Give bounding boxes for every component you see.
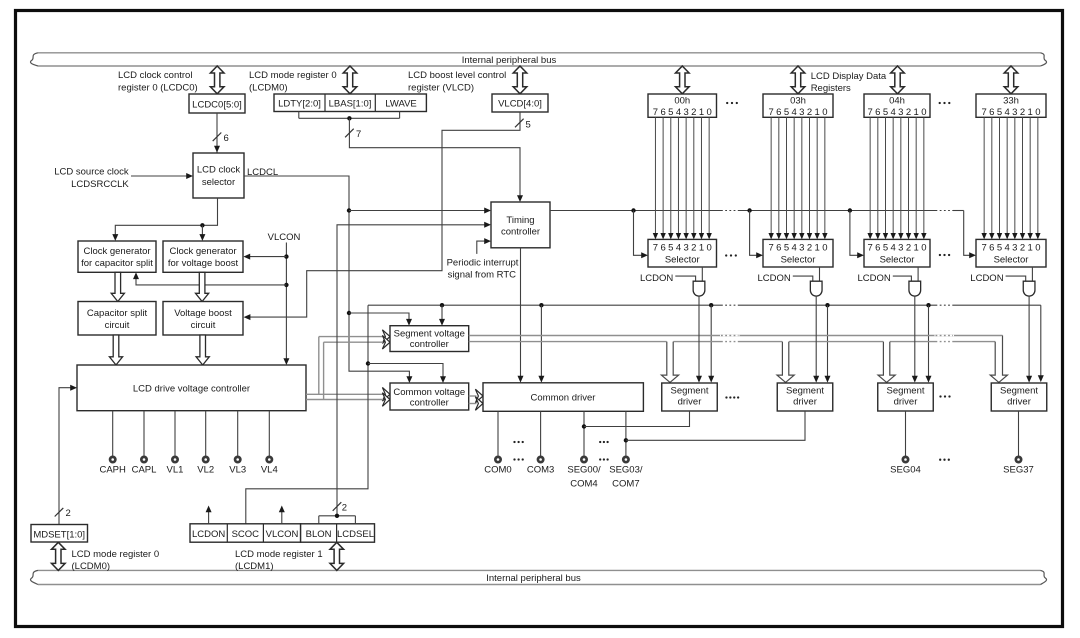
svg-text:SEG37: SEG37 (1003, 465, 1034, 476)
svg-text:VLCD[4:0]: VLCD[4:0] (498, 99, 542, 110)
ellipsis SEG04-SEG37 (939, 459, 941, 461)
ellipsis COM0-COM3 (513, 441, 515, 443)
svg-text:LCDSEL: LCDSEL (337, 529, 374, 540)
svg-text:Selector: Selector (665, 255, 700, 266)
segment driver 04h (878, 383, 934, 411)
svg-text:Clock generator: Clock generator (83, 246, 150, 257)
pin COM3 (540, 411, 542, 456)
block timing controller (491, 202, 550, 248)
svg-text:1: 1 (699, 107, 704, 118)
pin COM0 (497, 411, 499, 456)
svg-text:6: 6 (875, 107, 880, 118)
svg-text:Selector: Selector (781, 255, 816, 266)
segment driver 33h (991, 383, 1047, 411)
wire SCOC distribution (246, 305, 368, 524)
register LCDC0[5:0] (189, 94, 245, 113)
pin VL1 (174, 411, 176, 457)
block common driver (483, 383, 643, 412)
pin SEG03/COM7 (625, 411, 627, 456)
svg-text:LCD clock control: LCD clock control (118, 70, 192, 81)
svg-text:circuit: circuit (191, 320, 216, 331)
block clock generator for capacitor split (78, 241, 156, 272)
selector 33h (976, 239, 1046, 267)
bus double arrow LCDM0 (343, 66, 357, 94)
svg-text:1: 1 (699, 243, 704, 254)
svg-text:5: 5 (883, 107, 888, 118)
svg-text:SEG03/: SEG03/ (609, 465, 643, 476)
svg-text:COM4: COM4 (570, 479, 597, 490)
bus double arrow reg 04h (891, 66, 905, 94)
ellipsis segment drivers zone B (939, 395, 941, 397)
svg-text:4: 4 (792, 107, 797, 118)
svg-text:LCDON: LCDON (758, 273, 791, 284)
svg-text:3: 3 (898, 107, 903, 118)
wire RTC interrupt to timing controller (477, 241, 485, 254)
svg-text:LCDSRCCLK: LCDSRCCLK (71, 179, 129, 190)
svg-text:(LCDM0): (LCDM0) (72, 561, 111, 572)
svg-text:3: 3 (683, 107, 688, 118)
wire LCDCL to timing controller (244, 176, 409, 377)
svg-text:1: 1 (815, 107, 820, 118)
stub arrow LCDON up (208, 512, 210, 524)
svg-text:6: 6 (660, 107, 665, 118)
wire clock selector to clock generators (115, 198, 217, 235)
svg-text:0: 0 (706, 107, 711, 118)
svg-text:Common voltage: Common voltage (393, 387, 465, 398)
wire common voltage to common driver (pair) (469, 395, 477, 397)
ellipsis registers zone B (939, 102, 941, 104)
svg-text:signal from RTC: signal from RTC (448, 270, 517, 281)
svg-text:6: 6 (989, 243, 994, 254)
register MDSET[1:0] (31, 525, 88, 543)
svg-text:circuit: circuit (105, 320, 130, 331)
wire LCDON to gate 04h (893, 276, 912, 281)
svg-text:2: 2 (1020, 243, 1025, 254)
svg-text:Internal peripheral bus: Internal peripheral bus (486, 573, 581, 584)
svg-text:7: 7 (868, 107, 873, 118)
svg-text:LCD mode register 0: LCD mode register 0 (72, 549, 160, 560)
bus double arrow MDSET/LCDM0 (52, 542, 66, 570)
wire timing controller to common driver (520, 248, 522, 377)
wire drive voltage to segment voltage controller (pair) (306, 393, 383, 395)
svg-text:LBAS[1:0]: LBAS[1:0] (329, 99, 372, 110)
ellipsis segment drivers zone A (725, 396, 727, 398)
svg-text:6: 6 (224, 133, 229, 144)
wire LCDON to gate 33h (1006, 276, 1026, 281)
gate AND 00h (693, 281, 705, 296)
wire branch to voltage boost clock generator (201, 225, 203, 234)
svg-text:7: 7 (982, 243, 987, 254)
svg-text:2: 2 (807, 107, 812, 118)
hollow arrow bus to segment driver (661, 342, 678, 383)
wire LCDSRCCLK to clock selector (131, 175, 187, 177)
node SEG00/COM4 junction (582, 424, 586, 428)
ellipsis registers zone A (726, 102, 728, 104)
wire VLCD[4:0] to voltage boost circuit (250, 112, 520, 317)
svg-text:6: 6 (776, 243, 781, 254)
wire gate 04h to segment driver (914, 296, 916, 376)
svg-text:5: 5 (997, 243, 1002, 254)
svg-text:2: 2 (906, 107, 911, 118)
segment driver 00h (662, 383, 718, 411)
svg-text:2: 2 (906, 243, 911, 254)
block LCD clock selector (193, 153, 244, 198)
svg-text:LCDON: LCDON (858, 273, 891, 284)
wires register 33h to selector (983, 117, 985, 233)
svg-text:Periodic interrupt: Periodic interrupt (447, 258, 519, 269)
svg-text:LCD boost level control: LCD boost level control (408, 70, 506, 81)
hollow arrow voltage boost to drive controller (196, 335, 209, 365)
wire selector output to gate 03h (819, 267, 821, 281)
hollow arrow voltage boost clock (196, 272, 209, 301)
svg-text:6: 6 (776, 107, 781, 118)
svg-text:33h: 33h (1003, 95, 1019, 106)
svg-text:2: 2 (691, 107, 696, 118)
hollow arrow bus to segment driver (777, 342, 794, 383)
gate AND 03h (810, 281, 822, 296)
svg-text:Timing: Timing (506, 215, 534, 226)
svg-text:LDTY[2:0]: LDTY[2:0] (278, 99, 321, 110)
svg-text:LCD Display Data: LCD Display Data (811, 71, 887, 82)
svg-text:1: 1 (914, 107, 919, 118)
slash 2 MDSET (55, 508, 64, 517)
svg-text:VL4: VL4 (261, 465, 278, 476)
svg-text:driver: driver (894, 397, 918, 408)
svg-text:register 0 (LCDC0): register 0 (LCDC0) (118, 83, 198, 94)
register LDTY[2:0]/LBAS[1:0]/LWAVE (274, 94, 426, 112)
svg-text:2: 2 (342, 503, 347, 514)
svg-text:driver: driver (1007, 397, 1031, 408)
pin VL2 (205, 411, 207, 457)
wires register 04h to selector (869, 117, 871, 233)
node BLON bracket junction (335, 514, 339, 518)
svg-text:7: 7 (769, 107, 774, 118)
svg-text:LCDON: LCDON (970, 273, 1003, 284)
svg-text:0: 0 (706, 243, 711, 254)
node SCOC to segment driver junction (709, 303, 713, 307)
selector 03h (763, 239, 833, 267)
svg-text:Segment: Segment (886, 386, 924, 397)
wire LCDON to gate 03h (793, 276, 813, 281)
top internal peripheral bus bar (38, 52, 1041, 54)
svg-text:2: 2 (691, 243, 696, 254)
svg-text:Internal peripheral bus: Internal peripheral bus (462, 55, 557, 66)
wire MDSET[1:0] to drive voltage controller (59, 388, 71, 525)
slash 5 (515, 119, 524, 128)
node LDTY bracket junction (347, 116, 351, 120)
pin SEG04 (905, 411, 907, 456)
svg-text:MDSET[1:0]: MDSET[1:0] (33, 529, 85, 540)
register 00h display data (648, 94, 717, 117)
svg-text:03h: 03h (790, 95, 806, 106)
svg-text:Voltage boost: Voltage boost (174, 308, 232, 319)
wire VLCON down to LCD drive voltage controller (285, 243, 287, 359)
svg-text:COM0: COM0 (484, 465, 511, 476)
svg-text:3: 3 (683, 243, 688, 254)
svg-text:selector: selector (202, 177, 235, 188)
svg-text:0: 0 (822, 243, 827, 254)
wire selector output to gate 33h (1031, 267, 1033, 281)
svg-text:5: 5 (526, 120, 531, 131)
svg-text:Segment voltage: Segment voltage (394, 329, 465, 340)
svg-text:7: 7 (356, 129, 361, 140)
hollow arrow bus to segment driver (878, 342, 895, 383)
pin VL3 (237, 411, 239, 457)
svg-text:LCD drive voltage controller: LCD drive voltage controller (133, 383, 250, 394)
ellipsis COM3-SEG00 (599, 441, 601, 443)
svg-text:LCDC0[5:0]: LCDC0[5:0] (192, 99, 242, 110)
svg-text:2: 2 (66, 508, 71, 519)
svg-text:LCDON: LCDON (192, 529, 225, 540)
block common voltage controller (390, 383, 469, 410)
svg-text:VL2: VL2 (197, 465, 214, 476)
wire LCDC0 to LCD clock selector (216, 113, 218, 153)
svg-text:5: 5 (668, 107, 673, 118)
svg-text:0: 0 (921, 107, 926, 118)
pin VL4 (268, 411, 270, 457)
svg-text:0: 0 (921, 243, 926, 254)
wire selector output to gate 04h (917, 267, 919, 281)
svg-text:6: 6 (989, 107, 994, 118)
node SCOC to segment driver junction (926, 303, 930, 307)
svg-text:0: 0 (822, 107, 827, 118)
svg-text:BLON: BLON (306, 529, 332, 540)
svg-text:driver: driver (793, 397, 817, 408)
svg-text:for voltage boost: for voltage boost (168, 258, 239, 269)
stub arrow VLCON up (281, 512, 283, 524)
pin SEG00/COM4 (583, 411, 585, 456)
svg-text:Segment: Segment (786, 386, 824, 397)
segment driver 03h (777, 383, 833, 411)
node SCOC to segment driver junction (825, 303, 829, 307)
pin CAPH (112, 411, 114, 457)
svg-text:5: 5 (883, 243, 888, 254)
bus double arrow reg 33h (1004, 66, 1018, 94)
wire segment driver 00h output to SEG00/COM4 (584, 411, 690, 427)
node timing to selector junction (848, 208, 852, 212)
bus double arrow LCDM1 (330, 542, 344, 570)
register 33h display data (976, 94, 1046, 117)
svg-text:(LCDM0): (LCDM0) (249, 83, 288, 94)
svg-text:Registers: Registers (811, 83, 851, 94)
svg-text:7: 7 (769, 243, 774, 254)
ellipsis selectors zone B (939, 254, 941, 256)
svg-text:Selector: Selector (994, 255, 1029, 266)
svg-text:3: 3 (799, 243, 804, 254)
svg-text:LWAVE: LWAVE (385, 99, 417, 110)
svg-text:3: 3 (1012, 243, 1017, 254)
block LCD drive voltage controller (77, 365, 306, 411)
svg-text:5: 5 (784, 243, 789, 254)
node SCOC to common voltage junction (366, 361, 370, 365)
register BLON/LCDSEL (301, 524, 375, 542)
node timing to selector junction (631, 208, 635, 212)
register 03h display data (763, 94, 833, 117)
bus double arrow VLCD (513, 66, 527, 94)
node clock branch junction (200, 223, 204, 227)
svg-text:3: 3 (799, 107, 804, 118)
wire gate 33h to segment driver (1028, 296, 1030, 376)
svg-text:controller: controller (410, 398, 449, 409)
svg-text:Common driver: Common driver (531, 393, 596, 404)
svg-text:LCD clock: LCD clock (197, 165, 241, 176)
svg-text:SEG00/: SEG00/ (567, 465, 601, 476)
svg-text:for capacitor split: for capacitor split (81, 258, 153, 269)
svg-text:5: 5 (997, 107, 1002, 118)
register 04h display data (864, 94, 930, 117)
gate AND 33h (1023, 281, 1035, 296)
bus double arrow reg 00h (676, 66, 690, 94)
svg-text:4: 4 (792, 243, 797, 254)
node timing to selector junction (747, 208, 751, 212)
svg-text:2: 2 (807, 243, 812, 254)
pin CAPL (143, 411, 145, 457)
svg-text:0: 0 (1035, 107, 1040, 118)
svg-text:1: 1 (914, 243, 919, 254)
block voltage boost circuit (163, 302, 243, 336)
wires register 03h to selector (770, 117, 772, 233)
node VLCON junction 2 (284, 283, 288, 287)
gate AND 04h (909, 281, 921, 296)
wire timing controller to selectors (550, 210, 721, 212)
bus double arrow LCDC0 (210, 66, 224, 94)
svg-text:1: 1 (1028, 243, 1033, 254)
svg-text:4: 4 (676, 243, 681, 254)
svg-text:Segment: Segment (1000, 386, 1038, 397)
register LCDON/SCOC/VLCON (190, 524, 301, 542)
node SCOC to common driver junction (539, 303, 543, 307)
block clock generator for voltage boost (163, 241, 243, 272)
svg-text:00h: 00h (674, 95, 690, 106)
svg-text:4: 4 (891, 107, 896, 118)
svg-text:CAPL: CAPL (132, 465, 157, 476)
svg-text:7: 7 (868, 243, 873, 254)
svg-text:LCD source clock: LCD source clock (54, 167, 129, 178)
bus double arrow reg 03h (791, 66, 805, 94)
node LCDCL segment voltage junction (347, 311, 351, 315)
svg-text:1: 1 (815, 243, 820, 254)
thick bus segment voltage to segment drivers (469, 335, 1003, 337)
svg-text:2: 2 (1020, 107, 1025, 118)
svg-text:7: 7 (653, 107, 658, 118)
wire BLON/LCDSEL to timing controller (337, 225, 485, 516)
block capacitor split circuit (78, 302, 156, 336)
selector 04h (864, 239, 930, 267)
svg-text:COM3: COM3 (527, 465, 554, 476)
svg-text:Clock generator: Clock generator (169, 246, 236, 257)
wire gate 00h to segment driver (698, 296, 700, 376)
node LCDCL timing junction (347, 208, 351, 212)
wire gate 03h to segment driver (815, 296, 817, 376)
svg-text:VLCON: VLCON (268, 232, 301, 243)
svg-text:04h: 04h (889, 95, 905, 106)
svg-text:VL1: VL1 (167, 465, 184, 476)
svg-text:COM7: COM7 (612, 479, 639, 490)
svg-text:driver: driver (678, 397, 702, 408)
pin SEG37 (1018, 411, 1020, 456)
svg-text:4: 4 (676, 107, 681, 118)
selector 00h (648, 239, 717, 267)
svg-text:register (VLCD): register (VLCD) (408, 83, 474, 94)
svg-text:0: 0 (1035, 243, 1040, 254)
svg-text:5: 5 (668, 243, 673, 254)
node VLCON junction 1 (284, 254, 288, 258)
svg-text:controller: controller (410, 339, 449, 350)
svg-text:4: 4 (1005, 243, 1010, 254)
wire 7-bit to timing controller top (349, 118, 520, 196)
svg-text:1: 1 (1028, 107, 1033, 118)
svg-text:7: 7 (653, 243, 658, 254)
wire LCDON to gate 00h (675, 276, 695, 281)
svg-text:7: 7 (982, 107, 987, 118)
svg-text:Selector: Selector (880, 255, 915, 266)
svg-text:6: 6 (660, 243, 665, 254)
bottom internal peripheral bus bar (38, 569, 1041, 571)
svg-text:4: 4 (891, 243, 896, 254)
svg-text:Capacitor split: Capacitor split (87, 308, 148, 319)
svg-text:3: 3 (898, 243, 903, 254)
svg-text:LCDON: LCDON (640, 273, 673, 284)
svg-text:VL3: VL3 (229, 465, 246, 476)
svg-text:SEG04: SEG04 (890, 465, 921, 476)
svg-text:SCOC: SCOC (232, 529, 260, 540)
register VLCD[4:0] (492, 94, 548, 112)
slash 7 (345, 129, 354, 138)
wire LDTY/LBAS/LWAVE bracket (298, 112, 300, 119)
svg-text:(LCDM1): (LCDM1) (235, 561, 274, 572)
svg-text:LCD mode register 0: LCD mode register 0 (249, 70, 337, 81)
ellipsis selectors zone A (725, 254, 727, 256)
node SCOC to segment voltage junction (440, 303, 444, 307)
hollow arrow capacitor split clock (111, 272, 124, 301)
wire BLON/LCDSEL bracket (318, 516, 320, 524)
svg-text:3: 3 (1012, 107, 1017, 118)
svg-text:CAPH: CAPH (99, 465, 126, 476)
svg-text:6: 6 (875, 243, 880, 254)
slash 6 (213, 133, 222, 142)
node SEG03/COM7 junction (624, 438, 628, 442)
svg-text:LCD mode register 1: LCD mode register 1 (235, 549, 323, 560)
svg-text:5: 5 (784, 107, 789, 118)
block segment voltage controller (390, 326, 469, 352)
svg-text:VLCON: VLCON (266, 529, 299, 540)
wires register 00h to selector (654, 117, 656, 233)
svg-text:4: 4 (1005, 107, 1010, 118)
svg-text:Segment: Segment (670, 386, 708, 397)
hollow arrow bus end to segment driver 33h (990, 336, 1007, 383)
svg-text:controller: controller (501, 227, 540, 238)
hollow arrow capacitor split to drive controller (109, 335, 122, 365)
wire segment driver 03h output to SEG03/COM7 (626, 411, 805, 440)
slash 2 BLON (333, 502, 342, 511)
wire selector output to gate 00h (701, 267, 703, 281)
